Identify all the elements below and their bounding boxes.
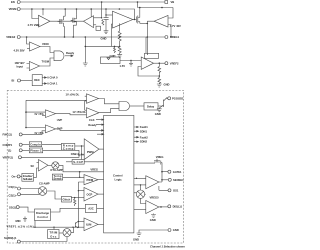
pin VREF2 (165, 62, 168, 65)
svg-text:GND: GND (155, 112, 161, 116)
comparator T2 (87, 108, 100, 118)
wire phase to pwm (43, 150, 84, 155)
svg-text:4.7V VBB: 4.7V VBB (28, 23, 40, 27)
svg-text:Logic: Logic (115, 178, 123, 182)
svg-text:Comp: Comp (63, 146, 74, 150)
svg-text:SHDN(L)1: SHDN(L)1 (4, 236, 17, 240)
dashed IC boundary (7, 90, 183, 243)
wire B out (147, 21, 154, 55)
svg-text:VREG2: VREG2 (6, 35, 16, 39)
svg-text:1.5V: 1.5V (120, 64, 126, 68)
wire OVP1 out to T2 (56, 114, 87, 115)
svg-text:UVP: UVP (57, 118, 63, 122)
resistor R4 (158, 63, 161, 74)
svg-text:4.7V 40V: 4.7V 40V (170, 24, 181, 28)
svg-text:ILIM: ILIM (86, 223, 92, 227)
svg-text:VB: VB (171, 0, 175, 4)
svg-text:Comp In: Comp In (30, 143, 41, 147)
wire gate rail (50, 20, 84, 22)
svg-text:Channel 1 Selection shown: Channel 1 Selection shown (150, 244, 185, 248)
svg-text:TVSM: TVSM (42, 59, 50, 63)
pwm comparator 2 (84, 175, 98, 185)
wire VREG rail (20, 36, 165, 38)
svg-text:EN: EN (11, 0, 15, 4)
wire phase outputs (42, 77, 46, 79)
svg-text:VREF2: VREF2 (170, 62, 179, 66)
op-amp F mirror sense (84, 16, 94, 28)
control logic box (104, 115, 134, 232)
trim osc box (48, 230, 59, 239)
svg-text:VDSM: VDSM (9, 7, 18, 11)
svg-text:SS(1): SS(1) (9, 205, 16, 209)
svg-text:(1): (1) (8, 148, 11, 152)
resistor R5 (158, 76, 161, 83)
phase box (29, 148, 42, 153)
wire comp to logic (42, 143, 62, 145)
svg-text:Osc: Osc (50, 234, 57, 238)
comp in box (29, 142, 41, 147)
wire BI (20, 80, 32, 82)
ground G3 (83, 37, 88, 66)
and gate U2 (119, 102, 130, 111)
box 1.5V (101, 57, 121, 64)
wire EN rail (20, 1, 165, 3)
svg-text:BI: BI (12, 79, 15, 83)
svg-text:DIS(L)1: DIS(L)1 (173, 205, 183, 209)
svg-text:Ready: Ready (88, 123, 97, 127)
output multiplier M1 (136, 190, 144, 198)
temp sense box (52, 174, 62, 180)
svg-text:SDN1: SDN1 (140, 129, 148, 133)
svg-text:CS(1)+: CS(1)+ (9, 185, 18, 189)
svg-text:Soft-start: Soft-start (23, 177, 32, 181)
op-amp E comparator (29, 62, 39, 71)
svg-text:SDN2: SDN2 (140, 140, 148, 144)
mosfet H pass transistor (136, 9, 139, 23)
svg-text:GND: GND (173, 228, 179, 232)
svg-text:Fault1: Fault1 (140, 125, 148, 129)
svg-text:VREF1 ±(1% ±1%): VREF1 ±(1% ±1%) (7, 225, 34, 229)
svg-text:FWC(1): FWC(1) (3, 132, 13, 136)
svg-text:CS-AMP: CS-AMP (39, 182, 50, 186)
svg-text:S-CAP: S-CAP (73, 160, 83, 164)
svg-text:OS1: OS1 (173, 189, 179, 193)
ota multiplier (52, 162, 59, 169)
driver op-amp D1 (146, 176, 159, 189)
wire G out (133, 19, 137, 21)
svg-text:A2C: A2C (88, 207, 93, 211)
comparator T3 (84, 188, 98, 202)
svg-text:OSB 2: OSB 2 (71, 152, 80, 156)
ground G7 (137, 233, 142, 236)
svg-text:Input: Input (17, 65, 24, 69)
svg-text:VREG: VREG (90, 167, 98, 171)
riser x81 (81, 146, 83, 160)
s-cap box (72, 160, 84, 165)
wire ref W1 (26, 99, 87, 101)
svg-text:Control: Control (37, 215, 48, 219)
transistor Q2 (75, 222, 78, 229)
pin PGOOD1 (168, 97, 171, 100)
mixer multiplier (63, 229, 71, 237)
comparator T4 (84, 218, 98, 231)
op-amp C comparator (30, 42, 41, 51)
wire ref W2 (25, 111, 27, 113)
transistor Q1 (158, 98, 168, 109)
wire top right rail (138, 2, 174, 9)
ground G6 (151, 214, 156, 218)
decoder DEC (32, 75, 42, 86)
svg-text:180°/90°: 180°/90° (15, 61, 25, 65)
ground G4 (157, 83, 162, 87)
svg-text:GND: GND (110, 54, 116, 58)
pin GATE1 (168, 170, 171, 173)
op-amp B 4.7V 40V (154, 16, 168, 28)
pin DIS1 (159, 206, 168, 208)
svg-text:0 CHA 1: 0 CHA 1 (47, 82, 58, 86)
resistor R6 (74, 197, 75, 198)
and gate U1 (54, 51, 64, 61)
wire ota out (59, 165, 104, 171)
wire H2 feedback (138, 67, 159, 77)
svg-text:GND: GND (133, 237, 139, 241)
svg-text:OVP: OVP (57, 126, 63, 130)
svg-text:SENSE1: SENSE1 (173, 178, 184, 182)
enable soft start box (22, 173, 34, 181)
svg-text:PWM: PWM (87, 178, 94, 182)
svg-text:On−: On− (12, 175, 18, 179)
svg-text:COMP1: COMP1 (3, 143, 13, 147)
glitch box (62, 196, 72, 202)
node dots rails (31, 8, 33, 10)
svg-text:OCP: OCP (87, 192, 93, 196)
pin VREG1 (165, 36, 168, 39)
wire divider tap (85, 45, 119, 47)
rail bottom (34, 221, 85, 228)
fault outputs (134, 126, 139, 127)
svg-text:Enable/: Enable/ (23, 174, 33, 178)
capacitor C1 (102, 2, 109, 27)
svg-text:VION: VION (42, 42, 49, 46)
op-amp G error amp (113, 11, 133, 28)
svg-text:VREG: VREG (156, 155, 164, 159)
a2c box (85, 204, 96, 212)
wire H source (140, 22, 148, 24)
riser main (78, 182, 84, 227)
svg-text:GND: GND (164, 83, 170, 87)
svg-text:Sense: Sense (54, 177, 63, 181)
svg-text:TRIM: TRIM (50, 231, 58, 235)
pin VB (165, 1, 168, 4)
svg-text:Discharge: Discharge (36, 211, 50, 215)
svg-text:VREG1: VREG1 (170, 35, 180, 39)
error amp (39, 160, 49, 172)
svg-text:CS(1)−: CS(1)− (9, 194, 18, 198)
wire to VREF2 (154, 62, 165, 64)
svg-text:PWM: PWM (87, 150, 94, 154)
resistor R2 (118, 23, 121, 43)
wire T outputs (99, 99, 120, 104)
svg-text:VREG5: VREG5 (150, 196, 160, 200)
wire A inputs (32, 9, 39, 19)
resistor R3 (118, 44, 121, 54)
svg-text:PGOOD1: PGOOD1 (172, 96, 184, 100)
svg-text:Ready: Ready (66, 51, 75, 55)
comparator OVP1 (45, 110, 55, 118)
pwm main comparator (84, 139, 99, 160)
svg-text:Fault2: Fault2 (140, 135, 148, 139)
svg-text:Phase C: Phase C (30, 149, 41, 153)
wire vref (21, 155, 79, 157)
svg-text:OTA-AMP: OTA-AMP (50, 168, 63, 172)
comparator OVP2 (45, 125, 55, 133)
bias box (96, 26, 101, 30)
svg-text:MIN: MIN (16, 219, 21, 223)
svg-text:GATE1: GATE1 (173, 170, 182, 174)
svg-text:GND: GND (150, 218, 156, 222)
discharge control box (35, 209, 51, 221)
svg-text:1V ±5% DL: 1V ±5% DL (72, 110, 86, 114)
pin GND right (168, 229, 171, 232)
svg-text:Glitch: Glitch (63, 198, 71, 202)
ground G5 (157, 108, 162, 112)
ground G1 (104, 27, 109, 34)
wire VDSM rail (20, 9, 134, 19)
wire OVP2 out (56, 129, 104, 131)
op-amp A 4.7V regulator (39, 15, 51, 27)
svg-text:SC: SC (31, 164, 35, 168)
pin OS1 (168, 189, 171, 192)
ramp comp box (61, 143, 74, 150)
svg-text:DEC: DEC (34, 78, 40, 82)
svg-text:CLK: CLK (89, 118, 95, 122)
svg-text:Delay: Delay (147, 105, 155, 109)
resistor R1 (102, 20, 104, 26)
ground G2 (117, 54, 122, 58)
svg-text:0 CHA 0: 0 CHA 0 (47, 76, 58, 80)
transistor P1 (58, 16, 64, 26)
comparator T1 (87, 94, 99, 104)
svg-text:4.2V 28V: 4.2V 28V (14, 48, 25, 52)
driver op-amp D2 (146, 201, 159, 214)
svg-text:VREF(1): VREF(1) (3, 156, 14, 160)
wire Ready (65, 55, 73, 57)
svg-text:1V ±5% DL: 1V ±5% DL (66, 93, 80, 97)
svg-text:Control: Control (113, 174, 123, 178)
op-amp H2 buffer (141, 57, 153, 69)
cs amp multiplier (38, 187, 47, 196)
delay box (130, 105, 144, 107)
pin SENSE1 (168, 178, 171, 181)
transistor P2 (71, 15, 77, 25)
